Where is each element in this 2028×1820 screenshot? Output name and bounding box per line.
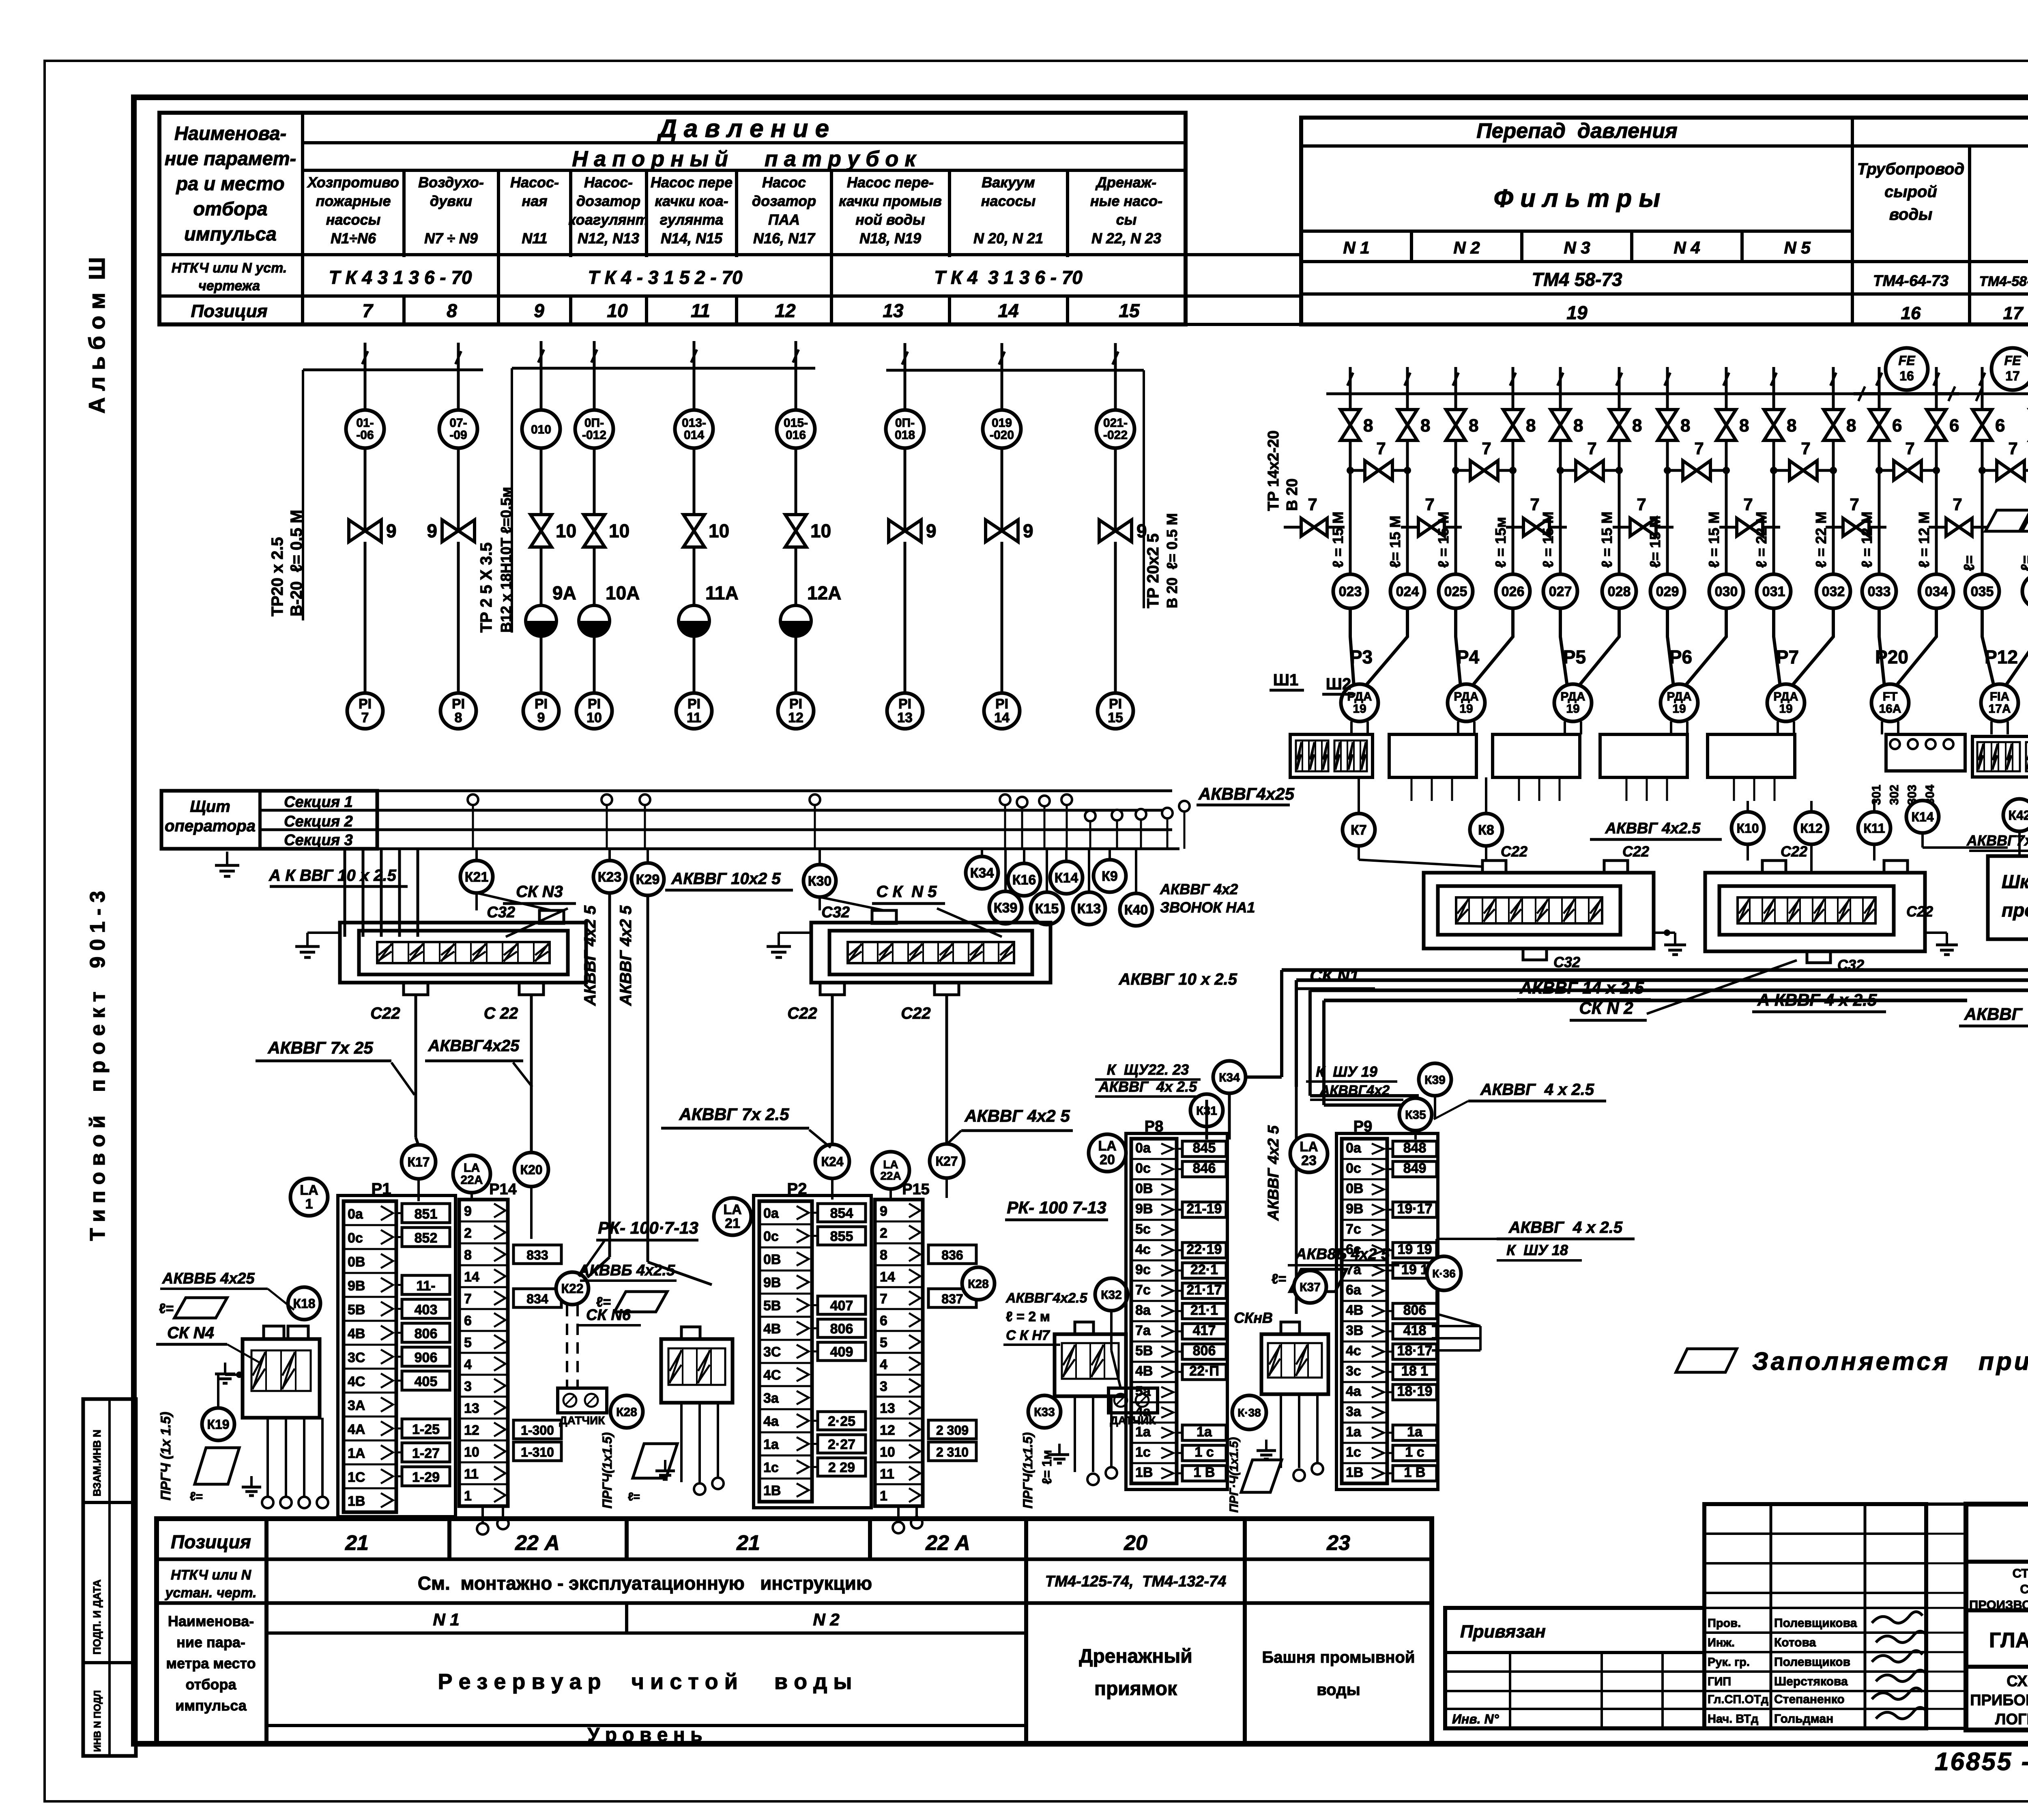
tag circle line 8 <box>457 370 460 410</box>
tag circle line 14 <box>1001 370 1003 410</box>
svg-text:Дренажный: Дренажный <box>1079 1646 1192 1667</box>
pressure gauge PI 13 <box>887 693 923 729</box>
wires Р6 to terminal block <box>1670 721 1672 734</box>
svg-text:906: 906 <box>415 1350 438 1365</box>
svg-text:ℓ = 15 М: ℓ = 15 М <box>1706 511 1722 568</box>
svg-text:ℓ = 22 М: ℓ = 22 М <box>1753 511 1770 568</box>
svg-text:промывки шсп: промывки шсп <box>2002 899 2028 921</box>
terminal dots on panel rows <box>468 794 478 805</box>
svg-text:С СОДЕРЖАНИЕМ ВЗВЕШЕННЫХ ВЕЩЕС: С СОДЕРЖАНИЕМ ВЗВЕШЕННЫХ ВЕЩЕСТВ ДО 2500… <box>2020 1582 2028 1596</box>
svg-text:Р5: Р5 <box>1563 646 1586 667</box>
svg-text:С22: С22 <box>1781 843 1807 860</box>
svg-text:19: 19 <box>1672 702 1686 716</box>
svg-text:С22: С22 <box>370 1004 400 1022</box>
tag circle line 10 <box>593 368 596 410</box>
svg-text:7: 7 <box>1587 439 1596 458</box>
impulse line 7 riser <box>364 343 367 370</box>
svg-text:035: 035 <box>1971 584 1994 599</box>
impulse line 9 riser <box>540 341 543 368</box>
flow line 024 riser <box>1406 367 1409 394</box>
svg-text:отбора: отбора <box>186 1676 237 1693</box>
valve 7 cross <box>1774 469 1833 472</box>
cable marker К16 <box>1023 849 1025 863</box>
svg-text:9: 9 <box>926 520 937 541</box>
svg-text:PI: PI <box>898 696 911 712</box>
valve 7 lower <box>1929 526 1989 529</box>
wire К-36 up <box>1435 1239 1438 1256</box>
svg-text:К24: К24 <box>821 1155 843 1169</box>
valve 8 line 032 <box>1824 410 1843 440</box>
svg-text:806: 806 <box>415 1326 438 1341</box>
svg-text:016: 016 <box>786 429 806 442</box>
svg-text:8: 8 <box>1680 416 1690 436</box>
svg-text:0с: 0с <box>1135 1161 1151 1176</box>
svg-text:01-: 01- <box>356 416 374 430</box>
valve line 7 <box>349 520 381 542</box>
svg-text:К ЩУ22. 23: К ЩУ22. 23 <box>1107 1061 1189 1078</box>
svg-text:4с: 4с <box>1135 1242 1151 1257</box>
svg-text:PI: PI <box>452 696 465 712</box>
svg-text:К14: К14 <box>1911 810 1933 824</box>
cable marker К35 <box>1399 1098 1432 1131</box>
svg-text:6: 6 <box>1995 416 2005 436</box>
svg-text:К28: К28 <box>968 1277 989 1291</box>
svg-text:6: 6 <box>1892 416 1902 436</box>
svg-text:20: 20 <box>1100 1152 1115 1168</box>
svg-text:Гольдман: Гольдман <box>1774 1712 1833 1726</box>
svg-text:ℓ = 15 М: ℓ = 15 М <box>1540 511 1556 568</box>
svg-text:N18, N19: N18, N19 <box>859 230 921 247</box>
svg-text:833: 833 <box>526 1248 548 1262</box>
svg-text:848: 848 <box>1403 1140 1426 1156</box>
svg-text:С К Н7: С К Н7 <box>1006 1328 1051 1343</box>
svg-text:031: 031 <box>1762 584 1785 599</box>
svg-text:АКВВГ 4х2 5: АКВВГ 4х2 5 <box>617 905 635 1006</box>
svg-text:21-19: 21-19 <box>1187 1201 1222 1217</box>
svg-text:16: 16 <box>1899 369 1914 383</box>
valve 7 cross <box>1667 469 1726 472</box>
svg-text:Котова: Котова <box>1774 1636 1816 1649</box>
svg-text:18·19: 18·19 <box>1397 1384 1433 1399</box>
svg-text:Насос пере: Насос пере <box>651 174 733 191</box>
svg-text:10: 10 <box>556 520 576 541</box>
svg-text:22·П: 22·П <box>1189 1363 1219 1379</box>
tag circle 027 <box>1543 574 1577 608</box>
svg-text:8: 8 <box>1363 416 1373 436</box>
svg-text:К17: К17 <box>407 1155 430 1170</box>
svg-text:8: 8 <box>1632 416 1642 436</box>
svg-text:7: 7 <box>1905 439 1914 458</box>
svg-text:5а: 5а <box>1135 1384 1151 1399</box>
svg-text:ТМ4-64-73: ТМ4-64-73 <box>1873 273 1949 290</box>
svg-text:Полевщикова: Полевщикова <box>1774 1616 1857 1630</box>
wires device blocks to К markers <box>1358 777 1360 813</box>
svg-text:22·1: 22·1 <box>1190 1262 1218 1277</box>
svg-text:Т К 4 - 3 1 5 2 - 70: Т К 4 - 3 1 5 2 - 70 <box>588 267 743 288</box>
svg-text:7а: 7а <box>1346 1262 1362 1277</box>
flow line 025 riser <box>1454 367 1457 394</box>
device Р5 <box>1559 608 1562 633</box>
valve 7 lower <box>1613 526 1674 529</box>
svg-text:8: 8 <box>1739 416 1749 436</box>
svg-text:АКВВГ 4 х 2.5: АКВВГ 4 х 2.5 <box>1964 1004 2028 1024</box>
svg-text:ℓ=: ℓ= <box>190 1490 203 1503</box>
svg-text:N 3: N 3 <box>1564 238 1590 257</box>
датчик box right <box>1109 1388 1158 1413</box>
svg-text:2 29: 2 29 <box>828 1460 855 1475</box>
svg-text:Нач. ВТд: Нач. ВТд <box>1708 1713 1758 1726</box>
svg-text:СХЕМА ПОДКЛЮЧЕНИЯ: СХЕМА ПОДКЛЮЧЕНИЯ <box>2007 1673 2028 1690</box>
svg-text:4а: 4а <box>1135 1404 1151 1419</box>
svg-text:17А: 17А <box>1988 702 2011 716</box>
valve line 15 <box>1099 520 1132 542</box>
svg-text:ные насо-: ные насо- <box>1090 193 1162 209</box>
device Р4 <box>1454 608 1457 633</box>
svg-text:Привязан: Привязан <box>1460 1622 1546 1642</box>
svg-text:К13: К13 <box>1077 901 1101 916</box>
svg-text:033: 033 <box>1868 584 1891 599</box>
svg-text:11А: 11А <box>705 582 739 603</box>
svg-text:6: 6 <box>464 1313 472 1329</box>
svg-text:К40: К40 <box>1124 902 1148 918</box>
svg-text:К34: К34 <box>970 865 994 881</box>
svg-text:К42: К42 <box>2008 808 2028 823</box>
cable marker К32 <box>1095 1278 1128 1311</box>
svg-text:11: 11 <box>464 1466 479 1482</box>
svg-text:К12: К12 <box>1800 821 1822 836</box>
svg-text:пожарные: пожарные <box>316 193 391 209</box>
relay box СК N5 <box>811 923 1051 983</box>
svg-text:АКВВГ 4х2 5: АКВВГ 4х2 5 <box>581 905 599 1006</box>
svg-text:К18: К18 <box>293 1296 315 1311</box>
valve line 12 <box>785 515 806 547</box>
impulse line header bus 2 <box>512 367 815 370</box>
svg-text:N 4: N 4 <box>1674 238 1700 257</box>
svg-text:407: 407 <box>830 1298 853 1313</box>
svg-text:У р о в е н ь: У р о в е н ь <box>587 1724 702 1746</box>
svg-text:насосы: насосы <box>981 193 1036 209</box>
svg-text:сырой: сырой <box>1884 183 1937 201</box>
svg-text:5: 5 <box>464 1335 472 1350</box>
svg-text:9: 9 <box>464 1204 472 1219</box>
wire К21 to С32 <box>475 893 478 910</box>
svg-text:1 В: 1 В <box>1194 1465 1215 1480</box>
svg-text:Р6: Р6 <box>1669 646 1692 667</box>
svg-text:сы: сы <box>1116 211 1137 228</box>
svg-text:ℓ = 12 М: ℓ = 12 М <box>1858 511 1875 568</box>
terminal block P5 group <box>1493 734 1580 777</box>
valve 6 line 035 <box>1972 410 1992 440</box>
svg-text:0П-: 0П- <box>895 416 915 430</box>
svg-text:Ш2: Ш2 <box>1326 675 1351 693</box>
svg-text:Щит: Щит <box>190 798 230 816</box>
cable marker К15 <box>1046 849 1048 892</box>
terminal circles under Р15 <box>897 1506 900 1522</box>
svg-text:10А: 10А <box>606 582 640 603</box>
wire С22-2 down to К20 <box>530 995 533 1153</box>
svg-text:12: 12 <box>880 1423 895 1438</box>
svg-text:ПРОИЗВОДИТЕЛЬНОСТЬЮ 20ТЫС.М3/С: ПРОИЗВОДИТЕЛЬНОСТЬЮ 20ТЫС.М3/СУТКИ С ВИХ… <box>1969 1598 2028 1612</box>
svg-text:4а: 4а <box>763 1414 779 1429</box>
svg-text:025: 025 <box>1444 584 1467 599</box>
svg-text:5: 5 <box>880 1335 887 1350</box>
valve 7 cross <box>1350 469 1407 472</box>
svg-text:13: 13 <box>464 1401 479 1416</box>
svg-text:20: 20 <box>1124 1531 1147 1555</box>
wires Р3 to terminal block <box>1350 721 1353 734</box>
cable marker К21 <box>475 849 478 861</box>
svg-text:К ШУ 19: К ШУ 19 <box>1316 1063 1377 1080</box>
svg-text:Р е з е р в у а р ч и с т: Р е з е р в у а р ч и с т о й в о д ы <box>438 1670 852 1694</box>
svg-text:14: 14 <box>994 710 1010 725</box>
valve 8 line 026 <box>1503 410 1523 440</box>
device Р3 <box>1349 608 1352 633</box>
cable marker К18 <box>288 1287 320 1320</box>
dimension note TP20x2.5 right <box>1143 370 1145 608</box>
valve line 9 <box>531 515 552 547</box>
svg-text:7: 7 <box>1376 439 1386 458</box>
tag circle 030 <box>1709 574 1743 608</box>
relay box СК N2 <box>1705 873 1925 951</box>
svg-text:1-300: 1-300 <box>521 1423 554 1438</box>
svg-text:Насос-: Насос- <box>584 174 633 191</box>
svg-text:7: 7 <box>2008 439 2017 458</box>
svg-text:5В: 5В <box>763 1298 781 1313</box>
svg-text:3с: 3с <box>1346 1363 1361 1379</box>
svg-text:Н а п о р н ы й п а т р у: Н а п о р н ы й п а т р у б о к <box>572 147 917 171</box>
svg-text:302: 302 <box>1888 785 1901 805</box>
valve 7 lower <box>1826 526 1886 529</box>
svg-text:АКВВБ 4х2.5: АКВВБ 4х2.5 <box>578 1262 675 1279</box>
valve 7 lower <box>1284 526 1345 529</box>
svg-text:С22: С22 <box>1906 903 1933 920</box>
svg-text:АКВВГ4х25: АКВВГ4х25 <box>428 1037 520 1055</box>
flow line 028 riser <box>1618 367 1621 394</box>
svg-text:1А: 1А <box>348 1446 365 1461</box>
svg-text:014: 014 <box>684 429 704 442</box>
svg-text:ПРГЧ(1х1.5): ПРГЧ(1х1.5) <box>600 1432 614 1509</box>
tag circle line 11 <box>693 368 696 410</box>
svg-text:Насос-: Насос- <box>510 174 559 191</box>
flow line 023 riser <box>1349 367 1352 394</box>
svg-text:3а: 3а <box>1346 1404 1362 1419</box>
fill-in parallelogram <box>2022 510 2028 531</box>
svg-text:8а: 8а <box>1135 1303 1151 1318</box>
svg-text:9: 9 <box>537 710 545 725</box>
svg-text:15: 15 <box>1119 300 1140 321</box>
cable marker К17 <box>402 1145 436 1179</box>
annunciator LA 20 <box>1089 1134 1126 1172</box>
svg-text:К19: К19 <box>207 1417 229 1432</box>
wires К10 К12 К11 down <box>1747 844 1749 861</box>
svg-text:К14: К14 <box>1055 870 1078 886</box>
svg-text:Вакуум: Вакуум <box>982 174 1035 191</box>
svg-text:дозатор: дозатор <box>576 193 640 209</box>
svg-text:12А: 12А <box>807 582 841 603</box>
svg-text:Д а в л е н и е: Д а в л е н и е <box>657 115 829 143</box>
С32 tab СК N5 <box>872 910 896 923</box>
svg-text:1: 1 <box>880 1488 887 1504</box>
svg-text:РДА: РДА <box>1454 690 1478 704</box>
svg-text:018: 018 <box>895 429 915 442</box>
svg-text:АКВВБ 4х25: АКВВБ 4х25 <box>162 1270 255 1287</box>
svg-text:024: 024 <box>1396 584 1419 599</box>
svg-text:Р14: Р14 <box>489 1181 517 1198</box>
damper 10A <box>579 605 610 636</box>
impulse line header bus 3 <box>886 369 1144 372</box>
svg-text:Т К 4 3 1 3 6 - 70: Т К 4 3 1 3 6 - 70 <box>329 267 472 288</box>
svg-text:19: 19 <box>1566 302 1588 323</box>
flow line 026 riser <box>1512 367 1515 394</box>
svg-text:В-20 ℓ= 0.5 М: В-20 ℓ= 0.5 М <box>288 510 305 616</box>
svg-text:14: 14 <box>880 1269 895 1285</box>
cable marker К28 <box>610 1395 643 1428</box>
svg-text:ной воды: ной воды <box>855 211 925 228</box>
svg-text:2 310: 2 310 <box>936 1445 969 1459</box>
wires Р5 to terminal block <box>1564 721 1566 734</box>
svg-text:4В: 4В <box>1135 1363 1153 1379</box>
svg-text:N 5: N 5 <box>1784 238 1811 257</box>
svg-text:ℓ = 22 М: ℓ = 22 М <box>1813 511 1829 568</box>
pressure gauge PI 8 <box>440 693 476 729</box>
valve 7 lower <box>1719 526 1780 529</box>
svg-text:качки коа-: качки коа- <box>655 193 728 209</box>
svg-text:В12 х 18Н10Т ℓ=0.5м: В12 х 18Н10Т ℓ=0.5м <box>498 487 514 633</box>
svg-text:10: 10 <box>709 520 729 541</box>
svg-text:Р12: Р12 <box>1985 646 2018 667</box>
svg-text:ℓ = 12 М: ℓ = 12 М <box>1916 511 1932 568</box>
svg-text:4: 4 <box>464 1357 472 1372</box>
svg-text:К7: К7 <box>1351 822 1367 838</box>
svg-text:9В: 9В <box>1346 1201 1363 1217</box>
svg-text:1а: 1а <box>1135 1424 1151 1440</box>
cable marker К9 <box>1109 849 1111 860</box>
terminal strip Р9 <box>1336 1133 1438 1489</box>
svg-text:PI: PI <box>995 696 1008 712</box>
svg-text:АКВВГ4х2: АКВВГ4х2 <box>1319 1083 1390 1098</box>
svg-text:8: 8 <box>1469 416 1478 436</box>
С32 tab СК N3 <box>539 910 564 923</box>
svg-text:7: 7 <box>362 300 374 321</box>
svg-text:0с: 0с <box>1346 1161 1361 1176</box>
annunciator LA 22А <box>453 1155 490 1193</box>
block wire stubs <box>1411 777 1413 801</box>
valve line 11 <box>683 515 705 547</box>
svg-text:16А: 16А <box>1879 702 1901 716</box>
cable marker К27 <box>930 1144 964 1178</box>
svg-text:1а: 1а <box>763 1437 779 1452</box>
wires lower strips risers <box>1205 1100 1208 1140</box>
impulse line header bus 1 <box>303 369 483 371</box>
operator panel Щит оператора <box>161 791 377 849</box>
valve 7 cross <box>1560 469 1619 472</box>
impulse line 11 riser <box>693 341 696 368</box>
ground СК N5 <box>778 933 780 946</box>
svg-text:АКВВГ 7х 2.5: АКВВГ 7х 2.5 <box>679 1105 789 1124</box>
cable marker К31 <box>1190 1094 1223 1127</box>
tag circle line 12 <box>795 368 797 410</box>
tag circle 033 <box>1862 574 1896 608</box>
cable marker К34 top <box>1213 1061 1246 1093</box>
svg-text:N12, N13: N12, N13 <box>578 230 639 247</box>
tag circle 036 <box>2022 574 2028 608</box>
cable marker К34 <box>981 849 983 856</box>
impulse line 15 riser <box>1114 343 1117 370</box>
svg-text:10: 10 <box>880 1444 895 1460</box>
svg-text:4В: 4В <box>763 1321 781 1337</box>
svg-text:19·17: 19·17 <box>1397 1201 1433 1217</box>
valve 7 lower <box>1401 526 1462 529</box>
svg-text:855: 855 <box>830 1229 853 1244</box>
FE 16 flow element <box>1854 392 1959 395</box>
wires СК N4 down to probes <box>266 1418 269 1496</box>
svg-text:3С: 3С <box>763 1344 781 1360</box>
valve line 8 <box>442 520 475 542</box>
pressure gauge PI 11 <box>676 693 712 729</box>
svg-text:АКВВГ 4 х 2.5: АКВВГ 4 х 2.5 <box>1508 1219 1623 1236</box>
damper 9A <box>526 605 556 636</box>
svg-text:ℓ = 2 м: ℓ = 2 м <box>1006 1309 1050 1324</box>
svg-text:Наименова-: Наименова- <box>168 1613 254 1629</box>
svg-text:Р7: Р7 <box>1776 646 1799 667</box>
svg-text:7: 7 <box>880 1291 887 1307</box>
svg-text:2: 2 <box>880 1225 887 1241</box>
svg-text:7: 7 <box>1850 495 1859 514</box>
svg-text:Перепад давления: Перепад давления <box>1476 119 1678 143</box>
title block frame <box>1966 1504 2028 1730</box>
svg-text:ПРГЧ(1х1.5): ПРГЧ(1х1.5) <box>1020 1432 1035 1509</box>
valve 7 cross <box>1456 469 1513 472</box>
cable marker К37 <box>1294 1271 1326 1303</box>
svg-text:ная: ная <box>522 193 548 209</box>
svg-text:ПОДП. И ДАТА: ПОДП. И ДАТА <box>91 1580 103 1655</box>
svg-text:АКВВГ 4х2 5: АКВВГ 4х2 5 <box>964 1106 1070 1125</box>
svg-text:импульса: импульса <box>184 223 277 245</box>
svg-text:ℓ=: ℓ= <box>159 1301 174 1316</box>
svg-text:ПАА: ПАА <box>768 211 800 228</box>
svg-text:13: 13 <box>883 300 904 321</box>
svg-text:1-25: 1-25 <box>412 1422 440 1437</box>
svg-text:16: 16 <box>1901 303 1921 323</box>
svg-text:19: 19 <box>1459 702 1473 716</box>
svg-text:N 1: N 1 <box>1343 238 1369 257</box>
svg-text:НТКЧ или N уст.: НТКЧ или N уст. <box>172 260 287 276</box>
svg-text:07-: 07- <box>449 416 467 430</box>
svg-text:АКВВГ 4х2.5: АКВВГ 4х2.5 <box>1605 820 1701 837</box>
flow line 035 riser <box>1981 367 1984 394</box>
svg-text:1-29: 1-29 <box>412 1470 440 1485</box>
svg-text:К·36: К·36 <box>1432 1267 1456 1280</box>
svg-text:С 22: С 22 <box>484 1004 518 1022</box>
svg-text:дозатор: дозатор <box>752 193 816 209</box>
svg-text:СК N3: СК N3 <box>516 883 563 901</box>
svg-text:N7 ÷ N9: N7 ÷ N9 <box>424 230 478 247</box>
svg-text:23: 23 <box>1326 1531 1350 1555</box>
svg-text:Полевщиков: Полевщиков <box>1774 1655 1850 1669</box>
svg-text:5В: 5В <box>1135 1343 1153 1359</box>
svg-text:ТМ4 58-73: ТМ4 58-73 <box>1532 269 1622 290</box>
wires Р12 to terminal block <box>1990 721 1993 734</box>
svg-text:PI: PI <box>687 696 700 712</box>
svg-text:FE: FE <box>2004 353 2022 368</box>
svg-text:2 309: 2 309 <box>936 1423 969 1438</box>
valve 6 line 034 <box>1927 410 1946 440</box>
relay box СК N7 <box>1055 1334 1126 1396</box>
cable marker К39 <box>1004 849 1007 891</box>
relay box СК N4 <box>243 1339 320 1418</box>
svg-text:-09: -09 <box>449 429 467 442</box>
tag circle 023 <box>1333 574 1367 608</box>
